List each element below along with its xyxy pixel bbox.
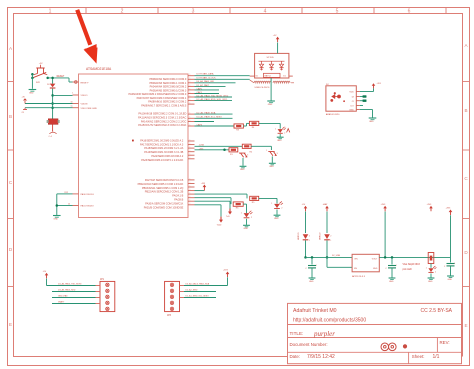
svg-text:pick LED: pick LED (403, 269, 413, 271)
svg-text:SP 505: SP 505 (267, 57, 275, 59)
ground below C2 (389, 278, 396, 283)
LED D4 green (271, 201, 283, 209)
svg-text:PA08/AIN16 SERCOM2.0 COM.2: PA08/AIN16 SERCOM2.0 COM.2 (148, 100, 187, 104)
ground (53, 216, 61, 221)
wire JP3 row3 (184, 295, 216, 298)
ground below LED D4 (274, 210, 281, 220)
svg-text:PB22/AIN SERCOM5.2 COM 1.2B: PB22/AIN SERCOM5.2 COM 1.2B (145, 191, 184, 194)
junction node (51, 77, 54, 80)
svg-text:1: 1 (190, 200, 191, 202)
svg-text:MBR120: MBR120 (319, 233, 321, 240)
svg-text:Sheet:: Sheet: (412, 354, 425, 359)
title block (288, 303, 462, 363)
svg-text:1: 1 (190, 85, 191, 87)
svg-text:1: 1 (271, 203, 272, 205)
svg-text:GND: GND (274, 218, 279, 220)
svg-text:1: 1 (316, 265, 317, 267)
junction node at SW1 right contact (46, 77, 49, 80)
svg-text:GND: GND (389, 281, 394, 283)
svg-text:Vbat SkipR 0603: Vbat SkipR 0603 (403, 263, 421, 266)
wire to RXD off-page arrow (195, 204, 222, 206)
svg-text:1u: 1u (71, 106, 73, 108)
wire (326, 240, 328, 257)
LED D5 (241, 211, 253, 219)
resistor R6 (233, 202, 243, 206)
junction node at SW1 pin 1 (31, 73, 34, 76)
svg-text:GND: GND (243, 228, 248, 230)
sheet label and value (412, 354, 440, 360)
wire JP3 row1 (184, 283, 228, 286)
transistor Q2 (266, 150, 277, 156)
svg-text:IO1: IO1 (255, 76, 258, 78)
wire net CAP0 (195, 84, 226, 87)
svg-text:E: E (9, 322, 12, 327)
svg-text:1: 1 (190, 147, 191, 149)
ground below U2 (267, 101, 275, 106)
svg-text:PA30 SWCLK: PA30 SWCLK (81, 193, 95, 196)
svg-text:PA27/GP SERCOM/COM3 5.0 2.B: PA27/GP SERCOM/COM3 5.0 2.B (145, 179, 184, 182)
svg-text:RESET*: RESET* (81, 82, 89, 84)
svg-text:DO: DO (351, 106, 355, 108)
junction node at SW1 pin 2 (31, 77, 34, 80)
svg-text:1: 1 (190, 143, 191, 145)
svg-text:GND: GND (277, 140, 282, 142)
resistor R2 (242, 144, 251, 148)
svg-text:2: 2 (284, 132, 285, 134)
wire VOUT rail +3V3 (379, 256, 450, 258)
junction node (304, 256, 307, 259)
svg-text:REV:: REV: (440, 340, 450, 345)
svg-text:Document Number:: Document Number: (290, 342, 328, 347)
wire net SCL (195, 116, 233, 119)
svg-text:BAT54: BAT54 (265, 75, 272, 78)
svg-text:PB08/AIN2 SERCOM4.0 COM.0: PB08/AIN2 SERCOM4.0 COM.0 (149, 77, 186, 81)
svg-text:1: 1 (190, 124, 191, 126)
svg-text:VDDIN: VDDIN (81, 104, 88, 106)
svg-text:+5V: +5V (39, 63, 43, 65)
svg-text:PA07/AIN7 SERCOM0.3 PAD3/SER C: PA07/AIN7 SERCOM0.3 PAD3/SER COM.1 (137, 96, 187, 100)
header JP1 (100, 279, 115, 312)
svg-text:1/1: 1/1 (433, 354, 440, 360)
svg-text:2: 2 (330, 235, 331, 237)
junction node (56, 204, 59, 207)
svg-text:SW1: SW1 (36, 82, 40, 84)
U1 pin RST (active low) (73, 81, 89, 85)
svg-text:1: 1 (49, 8, 52, 14)
voltage regulator U3 AP2112K-3.3 (352, 254, 379, 278)
wire VIN rail (306, 255, 353, 257)
wire (56, 194, 58, 215)
wire (384, 212, 386, 258)
wire EN tie (327, 257, 352, 267)
svg-text:7/9/15 12:42: 7/9/15 12:42 (307, 354, 335, 360)
LED D8 green power (426, 266, 437, 273)
svg-text:D2_A2_PA08_SDA: D2_A2_PA08_SDA (197, 111, 216, 114)
wire (243, 204, 246, 213)
svg-text:PA05/AIN5 SERCOM0.1/COM.3: PA05/AIN5 SERCOM0.1/COM.3 (150, 88, 187, 92)
wire net CAP3 (195, 122, 215, 127)
svg-text:GND: GND (369, 121, 374, 123)
svg-text:2: 2 (309, 235, 310, 237)
svg-text:C8: C8 (22, 112, 24, 114)
wire net SWDIO (57, 203, 73, 205)
svg-text:2: 2 (121, 8, 124, 14)
svg-text:PA/24.1 B: PA/24.1 B (172, 195, 183, 198)
U1 left pin PA31 SWDIO (73, 205, 95, 208)
svg-text:1: 1 (190, 189, 191, 191)
svg-text:PA14/XIN2 SERCOM2.2 COM.2 2.2/: PA14/XIN2 SERCOM2.2 COM.2 2.2/GC (141, 119, 187, 123)
wire (31, 74, 33, 89)
svg-text:VDD: VDD (349, 92, 354, 94)
wire VDD to +3V3 (360, 83, 381, 91)
svg-text:2: 2 (435, 271, 436, 273)
svg-text:PA30/A SERCOM COM 2/SWC1K: PA30/A SERCOM COM 2/SWC1K (145, 202, 183, 205)
svg-text:DOTSTAR_CLOCK: DOTSTAR_CLOCK (197, 77, 217, 80)
U2 left pin stubs (250, 76, 255, 83)
svg-text:1: 1 (190, 120, 191, 122)
svg-text:1: 1 (237, 152, 238, 154)
svg-text:GND: GND (447, 279, 452, 281)
pushbutton SW1 reset (33, 68, 47, 84)
svg-text:CAP0: CAP0 (197, 87, 203, 90)
wire net TXD (195, 94, 233, 97)
svg-text:1: 1 (454, 263, 455, 265)
svg-text:1: 1 (190, 81, 191, 83)
power +5V supply symbol (39, 63, 43, 68)
capacitor C7 (22, 97, 28, 104)
svg-text:VOUT: VOUT (372, 258, 378, 260)
svg-text:1: 1 (190, 92, 191, 94)
svg-text:D3_A3_PA03_RXD_SCK_WO1: D3_A3_PA03_RXD_SCK_WO1 (197, 98, 229, 101)
JP1 pin stubs (96, 286, 101, 304)
svg-text:1: 1 (190, 150, 191, 152)
wire net USB D- row (195, 148, 230, 150)
svg-text:B: B (464, 108, 467, 113)
wire through R6 to LED D5 (195, 198, 232, 204)
power arrow JP3 (223, 270, 229, 277)
power +5V arrow (USB) (302, 204, 308, 211)
wire DI (360, 95, 367, 97)
svg-text:1: 1 (190, 78, 191, 80)
wire net USB D+ row (195, 144, 243, 146)
off-page arrow TXD (226, 201, 232, 218)
resistor R4 (249, 121, 258, 125)
svg-text:RESET: RESET (57, 76, 65, 78)
wire vertical rail (52, 78, 54, 119)
svg-text:GND: GND (269, 166, 274, 168)
svg-text:1: 1 (190, 178, 191, 180)
svg-text:GND: GND (268, 104, 273, 106)
wire net RXD (195, 98, 233, 101)
svg-text:AP2112K-3.3: AP2112K-3.3 (352, 275, 366, 278)
svg-text:2: 2 (251, 217, 252, 219)
svg-text:E: E (464, 323, 467, 328)
ground below U4 (369, 118, 377, 123)
svg-text:D1_A1_SWD_SCL_MISO: D1_A1_SWD_SCL_MISO (186, 295, 210, 298)
svg-text:B: B (9, 114, 12, 119)
U1 left pin PA30 SWCLK (73, 193, 95, 196)
svg-text:ATSAMD21E18A: ATSAMD21E18A (86, 67, 112, 71)
wire net RESET (48, 76, 73, 82)
junction node (51, 94, 54, 97)
wire JP1 row3 (52, 295, 96, 298)
power +5V arrow (BAT) (323, 203, 329, 211)
svg-text:D1_A7_PA07: D1_A7_PA07 (197, 84, 210, 87)
U2 right pin stubs (289, 76, 294, 83)
power +5V above U2 (273, 35, 280, 42)
fuse F1 (filled component) (47, 119, 60, 125)
junction node (51, 102, 54, 105)
svg-text:1: 1 (190, 196, 191, 198)
svg-text:CAP1: CAP1 (197, 91, 203, 94)
junction node (326, 256, 329, 259)
svg-text:CC 2.5 BY-SA: CC 2.5 BY-SA (421, 308, 453, 314)
wire (251, 146, 271, 150)
power arrow above R7 (427, 204, 433, 211)
svg-text:1: 1 (190, 182, 191, 184)
svg-text:1: 1 (426, 267, 427, 269)
U1 left pin VDDIN (73, 104, 88, 106)
wire net USB_DP (195, 77, 250, 80)
svg-text:USBLC6-2SC6: USBLC6-2SC6 (255, 87, 270, 89)
svg-text:GND: GND (428, 281, 433, 283)
DotStar RGB LED U4 APA102 (326, 84, 356, 116)
diode D3 (47, 84, 55, 88)
U1 internal pin name labels (129, 77, 187, 209)
svg-text:VBATT: VBATT (58, 301, 65, 304)
wire through R5 to green LED (195, 194, 248, 198)
junction node (223, 149, 226, 152)
svg-text:1: 1 (190, 99, 191, 101)
svg-text:VDDIO: VDDIO (81, 95, 88, 97)
svg-text:1: 1 (190, 185, 191, 187)
wire (227, 277, 229, 285)
junction node (51, 106, 54, 109)
svg-text:1: 1 (396, 265, 397, 267)
svg-text:1: 1 (190, 193, 191, 195)
svg-text:Date:: Date: (290, 354, 301, 359)
svg-text:3: 3 (277, 153, 278, 155)
svg-text:1: 1 (266, 150, 267, 152)
svg-text:PA04/AIN4 SERCOM0.0/COM.2: PA04/AIN4 SERCOM0.0/COM.2 (150, 85, 187, 89)
wire to red LED resistor (195, 125, 235, 127)
wire DO stub (360, 105, 363, 107)
svg-text:1: 1 (190, 88, 191, 90)
svg-text:PB02/AIN10 SERCOM5.0 COM 1.0/G: PB02/AIN10 SERCOM5.0 COM 1.0/GCK (138, 183, 184, 186)
ground below Q1 (240, 166, 247, 171)
svg-text:1: 1 (190, 117, 191, 119)
svg-text:1: 1 (190, 103, 191, 105)
ESD protection IC U2 SP0503 (255, 53, 289, 78)
svg-text:1: 1 (190, 154, 191, 156)
wire (259, 198, 277, 203)
svg-text:1: 1 (309, 240, 310, 242)
JP3 pin stubs (180, 286, 185, 298)
power arrow JP1 (43, 271, 49, 278)
svg-text:4: 4 (264, 8, 267, 14)
microcontroller U1 ATSAMD21E18A (79, 67, 189, 218)
svg-text:1: 1 (190, 157, 191, 159)
svg-text:PB09/AIN3 SERCOM4.1 COM.1: PB09/AIN3 SERCOM4.1 COM.1 (149, 81, 186, 85)
transistor Q1 (237, 152, 248, 158)
svg-text:R12: R12 (65, 192, 68, 194)
ground below C3 (447, 276, 454, 281)
U1 left pin VDDCORE GND (73, 108, 98, 110)
capacitor C2 output (385, 257, 396, 277)
capacitor C1 input (305, 257, 316, 277)
wire (242, 158, 244, 166)
svg-text:D0_A6_PA06_LED: D0_A6_PA06_LED (197, 80, 215, 83)
U1 left pin VDDIO (73, 95, 88, 97)
U1 right pin stubs (188, 74, 195, 205)
U4 right pin stubs (356, 92, 360, 110)
svg-text:1: 1 (72, 93, 73, 95)
wire net SDA (195, 111, 233, 114)
svg-text:PA15/XOUT2 SERCOM2.3 COM.3 2.3: PA15/XOUT2 SERCOM2.3 COM.3 2.3/GK (138, 123, 186, 127)
svg-text:GND: GND (53, 219, 58, 221)
ground below LED D1 (277, 134, 284, 142)
svg-text:GND: GND (309, 281, 314, 283)
svg-text:PA17/SERCOM1.1/COM1 3.1/SCK A.: PA17/SERCOM1.1/COM1 3.1/SCK A.3 (140, 143, 184, 146)
ground below LED D5 (243, 219, 250, 230)
svg-text:PA31/B COM/SWD COM 1GND/SE: PA31/B COM/SWD COM 1GND/SE (144, 206, 184, 209)
svg-text:APA102-2020: APA102-2020 (326, 113, 340, 116)
svg-text:1: 1 (190, 95, 191, 97)
coupled inductor zigzag below U2 (254, 81, 290, 83)
svg-text:+BAT: +BAT (323, 203, 329, 206)
wire (277, 43, 279, 54)
ground below C1 (309, 278, 316, 283)
wire JP1 row4 (52, 301, 96, 304)
svg-text:PA10/AIN18 SERCOM2.2 COM.0 1.2: PA10/AIN18 SERCOM2.2 COM.0 1.2/LED (138, 112, 186, 116)
resistor R3 (234, 124, 243, 128)
wire (53, 94, 73, 96)
svg-text:1: 1 (275, 128, 276, 130)
svg-text:1: 1 (330, 240, 331, 242)
wire (52, 124, 54, 131)
CC license logo circles (381, 343, 407, 351)
svg-text:GND: GND (29, 93, 34, 95)
svg-text:D3_A3_PA03_RXD: D3_A3_PA03_RXD (58, 289, 76, 292)
svg-text:GND: GND (373, 268, 378, 270)
wire (430, 264, 432, 268)
wire (326, 212, 328, 234)
ground below D8 (428, 274, 435, 283)
wire (305, 240, 307, 257)
svg-text:C+5: C+5 (49, 136, 52, 138)
svg-text:PA11/AIN19 SERCOM2.3 COM.1 2.3: PA11/AIN19 SERCOM2.3 COM.1 2.3/DAC (138, 116, 186, 120)
wire (259, 123, 280, 128)
wire (450, 215, 452, 257)
svg-text:D0_A1_PA09_SCL_MISO: D0_A1_PA09_SCL_MISO (197, 116, 223, 119)
svg-text:+3V3: +3V3 (201, 183, 205, 185)
svg-text:2: 2 (281, 207, 282, 209)
svg-text:1: 1 (190, 139, 191, 141)
wire net CAP2 (195, 91, 220, 94)
wire to +3V3 ref (195, 183, 207, 191)
power flag +3V3 small (285, 127, 290, 133)
ground (29, 90, 37, 95)
svg-text:VDDCORE GND: VDDCORE GND (81, 108, 98, 110)
svg-text:PA22/SERCOM3.0/COM A.2: PA22/SERCOM3.0/COM A.2 (151, 155, 184, 158)
wire JP3 row2 (184, 289, 216, 292)
junction node (311, 256, 314, 259)
capacitor C3 (444, 257, 455, 275)
svg-text:PA19/SERCOM1.3/COM3 3.3 1.3B: PA19/SERCOM1.3/COM3 3.3 1.3B (144, 151, 183, 154)
off-page arrow RXD (217, 205, 224, 227)
svg-text:PA18/SERCOM1.2/COM2 3.2 1.2A: PA18/SERCOM1.2/COM2 3.2 1.2A (144, 147, 183, 150)
wire (305, 212, 307, 234)
date label and value (290, 354, 336, 360)
svg-text:1: 1 (190, 113, 191, 115)
junction node (391, 256, 394, 259)
svg-text:IO2: IO2 (283, 76, 286, 78)
wire net SWCLK (57, 192, 73, 194)
svg-text:http://adafruit.com/products/3: http://adafruit.com/products/3500 (293, 317, 366, 323)
svg-text:DOTSTAR_DATA: DOTSTAR_DATA (197, 73, 215, 76)
svg-text:5V_USB: 5V_USB (332, 255, 341, 257)
svg-text:1k: 1k (68, 203, 70, 205)
capacitor C8 (22, 108, 28, 114)
svg-text:PA16/SERCOM1.0/COM0 3.0/LED A.: PA16/SERCOM1.0/COM0 3.0/LED A.2 (140, 139, 184, 142)
wire (46, 279, 48, 286)
svg-text:5: 5 (336, 8, 339, 14)
ground below fuse (49, 132, 57, 138)
svg-text:1: 1 (241, 212, 242, 214)
wire GND of U4 (360, 110, 373, 118)
wire CI (360, 100, 367, 102)
svg-text:3: 3 (192, 8, 195, 14)
svg-text:D4_A4_PA04_TXD_MOSI_WO2: D4_A4_PA04_TXD_MOSI_WO2 (197, 94, 229, 97)
header JP3 (165, 281, 180, 317)
LED D1 red (275, 127, 286, 134)
diode D6 (298, 233, 310, 243)
diode D7 (319, 233, 331, 243)
svg-text:PA23/SERCOM3.1/COM 5.1 2.0/GCK: PA23/SERCOM3.1/COM 5.1 2.0/GCK (141, 159, 183, 162)
annotation arrow pointing at microcontroller (77, 10, 97, 64)
svg-text:PA06/AIN6 SERCOM0.2 PAD2/SERCO: PA06/AIN6 SERCOM0.2 PAD2/SERCOM.2 COM.0 (129, 92, 187, 96)
resistor R1 (229, 148, 238, 152)
svg-text:PA09/AIN17 SERCOM2.1 COM.3 A/B: PA09/AIN17 SERCOM2.1 COM.3 A/B.S (141, 103, 186, 107)
svg-text:PA/28.B: PA/28.B (174, 199, 183, 202)
svg-text:10: 10 (71, 102, 73, 104)
wire (25, 103, 73, 105)
wire net CAP1 (195, 87, 220, 90)
svg-text:GND: GND (240, 169, 245, 171)
svg-text:GND: GND (349, 110, 354, 112)
svg-text:purpler: purpler (313, 330, 335, 338)
svg-text:TxD: TxD (226, 216, 230, 218)
ground below Q2 (269, 163, 276, 168)
svg-text:GND_PAD: GND_PAD (58, 295, 68, 298)
wire (271, 156, 273, 163)
svg-text:Adafruit Trinket M0: Adafruit Trinket M0 (293, 308, 337, 314)
svg-text:1: 1 (190, 74, 191, 76)
note text (403, 263, 421, 271)
svg-text:+3V3: +3V3 (377, 83, 381, 85)
wire net D13 (195, 80, 236, 83)
svg-text:6: 6 (408, 8, 411, 14)
svg-text:VIN: VIN (354, 258, 358, 260)
wire (270, 78, 272, 101)
svg-text:PB03/AIN11 SERCOM5.1 COM 1.2Q: PB03/AIN11 SERCOM5.1 COM 1.2Q (142, 187, 183, 190)
svg-text:3: 3 (247, 155, 248, 157)
power +3V3 arrow (381, 204, 387, 211)
svg-text:PA31 SWDIO: PA31 SWDIO (81, 205, 95, 208)
svg-text:D2_A2_SWD: D2_A2_SWD (186, 289, 198, 292)
svg-text:D4_A4_PA04_TXD_MOSI: D4_A4_PA04_TXD_MOSI (58, 283, 82, 286)
wire to TXD off-page arrow (195, 200, 231, 202)
